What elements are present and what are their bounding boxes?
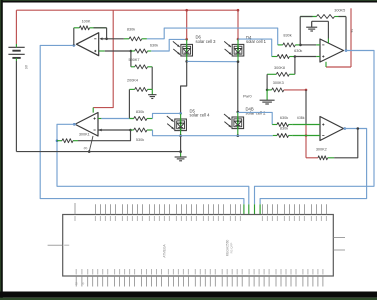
svg-text:830k: 830k (127, 27, 135, 31)
resistor R14 630k to U4 row1 (272, 116, 305, 126)
wire U4 output blue (260, 127, 367, 204)
microcontroller U5 ATMEGA2560 (63, 215, 334, 277)
solar cell D4B solar cell 2 (224, 106, 266, 128)
op-amp U2 (320, 39, 344, 62)
wire U2 output to IC pin (254, 204, 256, 214)
svg-text:830k: 830k (280, 126, 288, 130)
wire U3 pin 0 slant (84, 136, 93, 153)
resistor R15 830k to U4 row2 (273, 126, 292, 137)
wire red R10 to op-amp U4 net (284, 89, 308, 92)
svg-text:590K7: 590K7 (129, 58, 140, 62)
wire D4 bottom down to D4B top (238, 62, 252, 112)
solar cell D6 solar cell 3 (173, 35, 216, 57)
wire blue R11 to D5 top (153, 113, 181, 118)
wire blue D4B top to op-amp U4 row1 (238, 112, 272, 124)
svg-text:300K8: 300K8 (274, 66, 285, 70)
wire blue D4 top to op-amp U2 non-inverting (238, 39, 272, 56)
svg-text:MEGA2560: MEGA2560 (226, 240, 230, 257)
svg-text:solar cell 1: solar cell 1 (246, 39, 267, 44)
resistor R5 200K4 (127, 79, 152, 92)
wire D5 bottom to ground (180, 136, 182, 152)
junction D5 top (179, 112, 182, 119)
svg-text:solar cell 3: solar cell 3 (196, 39, 217, 44)
wire U1 inverting input row (100, 37, 124, 40)
wire R1 to inverting input (105, 28, 108, 40)
svg-text:300K2: 300K2 (316, 147, 327, 151)
wire U1 output blue (40, 44, 244, 204)
junction rail-D6 (185, 9, 188, 12)
resistor R10 300K3 (267, 81, 284, 92)
resistor R11 830k (129, 110, 152, 121)
op-amp U3 (75, 113, 98, 137)
resistor R4 590K7 (129, 58, 153, 69)
svg-text:100K: 100K (82, 19, 91, 23)
wire U2 inverting row (299, 44, 320, 47)
junction D4 top (237, 38, 240, 45)
wire D6 bottom down to D5 top (181, 61, 187, 113)
wire U2 non-inverting row (294, 55, 320, 58)
svg-text:(0): (0) (84, 146, 88, 150)
resistor R6 830k to U2 inverting (278, 34, 301, 47)
resistor R3 630k (131, 43, 158, 53)
wire U3 inverting row (98, 129, 132, 132)
wire U4 row1 leads (292, 124, 320, 126)
wire U2 feedback up (299, 17, 301, 45)
wire U3 output blue (57, 123, 249, 204)
wire U3 output to IC pin (248, 204, 250, 214)
wire U2 non-inverting node down (294, 57, 296, 75)
wire R8 down to U2 output (345, 17, 347, 51)
resistor R13 300K1 feedback (56, 133, 90, 143)
wire U4 output to IC pin (259, 204, 261, 214)
wire D4 bottom stub (237, 56, 240, 63)
op-amp U4 (320, 117, 344, 141)
wire red drop to solar cell D4 (237, 10, 239, 39)
wire U1 non-inverting row (99, 50, 133, 53)
solar cell D4 solar cell 1 (224, 35, 266, 56)
wire red supply drop to op-amp U3 (93, 10, 113, 112)
svg-text:530k: 530k (136, 138, 144, 142)
svg-text:300K3: 300K3 (273, 81, 284, 85)
svg-text:63Bk: 63Bk (297, 116, 305, 120)
wire R9 left down (266, 74, 269, 91)
ground G4 with branch to U2 (306, 21, 328, 43)
ground G3 (260, 90, 275, 104)
junction D6 top (185, 38, 188, 44)
svg-text:solar cell 4: solar cell 4 (190, 113, 211, 118)
wire red top rail (16, 9, 238, 11)
svg-text:830k: 830k (136, 110, 144, 114)
IC left pin (48, 245, 70, 246)
wire D6 bottom stub (185, 56, 188, 63)
svg-text:ATMEGA: ATMEGA (163, 244, 167, 258)
wire R13 to inverting node (78, 130, 131, 141)
resistor R1 100K feedback (74, 19, 107, 30)
wire D4B bottom stub (237, 129, 240, 137)
wire R5 left down to U3 non-inverting row (128, 89, 130, 118)
IC bottom pins (75, 269, 324, 287)
wire red drop to solar cell D6 (186, 10, 188, 39)
svg-text:630k: 630k (280, 116, 288, 120)
wire red battery to top rail (15, 10, 17, 44)
resistor R7 630k to U2 non-inverting (272, 49, 303, 59)
wire blue long row to U4 non-inverting (153, 130, 273, 136)
svg-text:R3 QFP: R3 QFP (230, 243, 234, 254)
svg-text:630k: 630k (294, 49, 302, 53)
ground G2 (175, 150, 187, 161)
wire red U4 rows to feedback (305, 125, 308, 158)
svg-text:200K4: 200K4 (127, 79, 138, 83)
wire ground bus horizontal (16, 151, 180, 153)
wire U3 non-inverting row (98, 118, 134, 120)
svg-text:630k: 630k (150, 43, 158, 47)
resistor R8 300K5 feedback (300, 9, 346, 19)
op-amp U1 (76, 33, 98, 56)
battery V1 (8, 44, 28, 69)
wire U2 output blue (255, 49, 375, 204)
svg-text:5V: 5V (350, 29, 354, 33)
wire node A down to R4 (130, 51, 132, 67)
svg-text:Pwr0: Pwr0 (243, 95, 252, 99)
IC right pins (333, 238, 345, 251)
wire U1 output to IC pin (243, 204, 245, 214)
wire red U2 supply (326, 8, 354, 67)
resistor R2 830k (124, 27, 147, 41)
wire R4 to R5 (151, 67, 153, 90)
resistor R12 530k (131, 128, 153, 142)
IC top pins (75, 203, 327, 221)
wire blue R2 to right op-amp net (147, 28, 278, 45)
wire U4 row2 leads (292, 135, 320, 137)
wire battery negative down (15, 61, 17, 152)
svg-text:300K5: 300K5 (334, 9, 345, 13)
wire U1 feedback loop (73, 28, 75, 46)
junction D4B top (237, 111, 240, 117)
resistor R9 300K8 (267, 66, 295, 76)
ground G1 (148, 89, 156, 98)
wire blue D6 bottom to D4 bottom (187, 60, 238, 62)
svg-text:solar cell 2: solar cell 2 (246, 111, 267, 116)
junction rail-D4 (237, 9, 240, 12)
resistor R16 300K2 feedback (306, 147, 334, 159)
svg-text:300K1: 300K1 (79, 133, 90, 137)
wire node down to U4 rows (305, 90, 307, 125)
wire D5 bottom stub (179, 131, 182, 137)
solar cell D5 solar cell 4 (167, 108, 210, 130)
svg-text:830k: 830k (283, 34, 291, 38)
wire U4 feedback from output (334, 127, 359, 158)
wire blue R3 to solar cell D6 top (151, 39, 186, 51)
